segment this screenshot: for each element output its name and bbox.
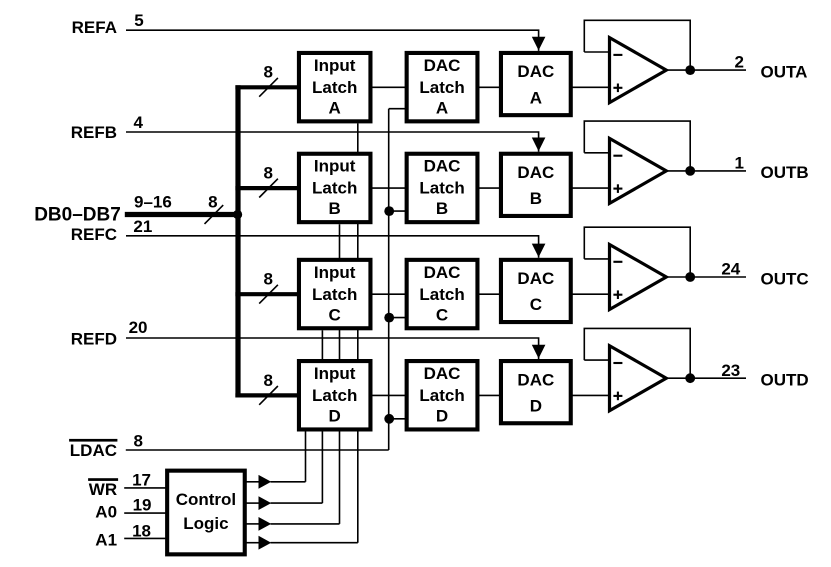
svg-text:20: 20 xyxy=(129,318,148,337)
block DAC B xyxy=(501,154,571,216)
bus stub 8-bit into Input Latch C xyxy=(235,292,298,296)
op-amp C xyxy=(610,245,667,310)
junction dot op-amp B output xyxy=(685,166,695,176)
junction dot LDAC tap B xyxy=(384,206,394,216)
wire op-amp A inverting input xyxy=(584,51,609,53)
junction dot LDAC tap C xyxy=(384,313,394,323)
svg-text:WR: WR xyxy=(89,480,117,499)
svg-text:Input: Input xyxy=(314,56,356,75)
svg-text:Control: Control xyxy=(176,490,236,509)
wire Control Logic output 1 stub xyxy=(246,481,259,483)
buffer arrowhead control output 3 xyxy=(259,517,272,531)
block DAC Latch C xyxy=(407,260,478,328)
arrowhead REFA into DAC A xyxy=(532,37,546,51)
svg-text:REFB: REFB xyxy=(71,123,117,142)
bus DB0-DB7 horizontal xyxy=(125,212,238,217)
buffer arrowhead control output 4 xyxy=(259,536,272,550)
op-amp A feedback wire xyxy=(584,20,690,70)
wire REFA from pin to DAC A xyxy=(126,30,539,51)
bus vertical distribution xyxy=(235,85,240,397)
wire Input Latch A to DAC Latch A xyxy=(372,86,406,88)
svg-text:DAC: DAC xyxy=(424,157,461,176)
bus width slash 8 on stub B xyxy=(259,179,278,198)
wire op-amp D inverting input xyxy=(584,359,609,361)
svg-text:Latch: Latch xyxy=(312,179,357,198)
svg-text:D: D xyxy=(530,396,542,415)
arrowhead REFB into DAC B xyxy=(532,138,546,152)
wire control output 4 horizontal run xyxy=(271,542,358,544)
svg-text:D: D xyxy=(329,407,341,426)
svg-text:8: 8 xyxy=(134,431,143,450)
svg-text:B: B xyxy=(436,199,448,218)
svg-text:Latch: Latch xyxy=(419,78,464,97)
svg-text:Latch: Latch xyxy=(419,386,464,405)
wire control line 1 vertical (to Input Latch D) xyxy=(305,432,307,482)
wire LDAC tap to DAC Latch D xyxy=(389,418,406,420)
bus width slash 8 on stub C xyxy=(259,285,278,304)
wire LDAC vertical riser xyxy=(388,109,390,450)
block Input Latch D xyxy=(299,361,371,429)
block DAC Latch B xyxy=(407,154,478,222)
wire op-amp D output xyxy=(666,377,746,379)
op-amp C feedback wire xyxy=(584,227,690,277)
op-amp D feedback wire xyxy=(584,328,690,378)
block DAC Latch D xyxy=(407,361,478,429)
wire LDAC tap to DAC Latch A xyxy=(389,108,406,110)
wire DAC C output to op-amp C + input xyxy=(572,293,610,295)
svg-text:Latch: Latch xyxy=(419,285,464,304)
svg-text:23: 23 xyxy=(721,361,740,380)
svg-text:21: 21 xyxy=(133,217,152,236)
wire REFC from pin to DAC C xyxy=(126,236,539,258)
junction dot LDAC tap D xyxy=(384,414,394,424)
svg-text:DAC: DAC xyxy=(517,163,554,182)
svg-text:19: 19 xyxy=(133,496,152,515)
svg-text:Input: Input xyxy=(314,364,356,383)
wire LDAC horizontal xyxy=(126,449,389,451)
op-amp B feedback wire xyxy=(584,121,690,171)
svg-text:4: 4 xyxy=(134,113,144,132)
block Input Latch B xyxy=(299,154,371,222)
op-amp B xyxy=(610,138,667,203)
wire op-amp B output xyxy=(666,170,746,172)
svg-text:A: A xyxy=(530,88,542,107)
junction dot op-amp A output xyxy=(685,65,695,75)
wire DAC B output to op-amp B + input xyxy=(572,187,610,189)
svg-text:DAC: DAC xyxy=(424,364,461,383)
svg-text:8: 8 xyxy=(208,193,217,212)
svg-text:Logic: Logic xyxy=(183,514,228,533)
svg-text:Input: Input xyxy=(314,157,356,176)
svg-text:Latch: Latch xyxy=(312,386,357,405)
svg-text:DAC: DAC xyxy=(517,62,554,81)
bus width slash 8 on stub A xyxy=(259,78,278,97)
svg-text:A1: A1 xyxy=(95,530,117,549)
wire control output 3 horizontal run xyxy=(271,523,340,525)
svg-text:OUTA: OUTA xyxy=(761,62,808,81)
wire control line 2 vertical (to Input Latch C, through D) xyxy=(321,330,323,503)
junction dot op-amp C output xyxy=(685,272,695,282)
svg-text:A: A xyxy=(436,98,448,117)
wire REFD from pin to DAC D xyxy=(126,338,539,359)
svg-text:OUTD: OUTD xyxy=(761,371,809,390)
wire control line 3 vertical (to Input Latch B, through C and D) xyxy=(339,224,341,524)
svg-text:LDAC: LDAC xyxy=(70,441,117,460)
block DAC D xyxy=(501,361,571,423)
svg-text:D: D xyxy=(436,407,448,426)
svg-text:REFA: REFA xyxy=(72,18,117,37)
svg-text:2: 2 xyxy=(734,53,743,72)
wire WR to Control Logic xyxy=(124,487,166,489)
svg-text:8: 8 xyxy=(264,63,273,82)
block Control Logic xyxy=(167,471,245,555)
wire A0 to Control Logic xyxy=(124,512,166,514)
svg-text:DAC: DAC xyxy=(517,370,554,389)
wire LDAC tap to DAC Latch C xyxy=(389,317,406,319)
wire A1 to Control Logic xyxy=(124,537,166,539)
wire DAC Latch A to DAC A xyxy=(479,86,500,88)
svg-text:DAC: DAC xyxy=(424,56,461,75)
wire Control Logic output 4 stub xyxy=(246,542,259,544)
svg-text:1: 1 xyxy=(734,154,743,173)
junction dot op-amp D output xyxy=(685,373,695,383)
wire LDAC tap to DAC Latch B xyxy=(389,210,406,212)
svg-text:DAC: DAC xyxy=(424,263,461,282)
block DAC Latch A xyxy=(407,53,478,121)
svg-text:Input: Input xyxy=(314,263,356,282)
block Input Latch A xyxy=(299,53,371,121)
op-amp D xyxy=(610,346,667,411)
bus stub 8-bit into Input Latch A xyxy=(235,85,298,89)
svg-text:Latch: Latch xyxy=(419,179,464,198)
arrowhead REFD into DAC D xyxy=(532,345,546,359)
wire Input Latch D to DAC Latch D xyxy=(372,394,406,396)
buffer arrowhead control output 1 xyxy=(259,475,272,489)
wire op-amp A output xyxy=(666,69,746,71)
svg-text:OUTB: OUTB xyxy=(761,163,809,182)
wire Control Logic output 3 stub xyxy=(246,523,259,525)
wire DAC Latch B to DAC B xyxy=(479,187,500,189)
wire control line 4 vertical (to Input Latch A, through B, C and D) xyxy=(357,123,359,542)
svg-text:17: 17 xyxy=(132,470,151,489)
wire REFB from pin to DAC B xyxy=(126,132,539,152)
wire DAC A output to op-amp A + input xyxy=(572,86,610,88)
block DAC C xyxy=(501,260,571,322)
wire DAC Latch C to DAC C xyxy=(479,293,500,295)
svg-text:5: 5 xyxy=(134,11,143,30)
svg-text:24: 24 xyxy=(721,260,740,279)
junction dot data bus xyxy=(233,210,242,219)
svg-text:REFD: REFD xyxy=(71,329,117,348)
svg-text:OUTC: OUTC xyxy=(761,269,809,288)
svg-text:C: C xyxy=(530,295,542,314)
wire control output 1 horizontal run xyxy=(271,481,306,483)
wire DAC D output to op-amp D + input xyxy=(572,394,610,396)
svg-text:REFC: REFC xyxy=(71,225,117,244)
wire Input Latch C to DAC Latch C xyxy=(372,293,406,295)
bus width slash 8 on stub D xyxy=(259,386,278,405)
svg-text:Latch: Latch xyxy=(312,285,357,304)
svg-text:A0: A0 xyxy=(95,503,117,522)
svg-text:DAC: DAC xyxy=(517,269,554,288)
svg-text:8: 8 xyxy=(264,270,273,289)
bus width slash 8 on data bus xyxy=(205,205,224,224)
block DAC A xyxy=(501,53,571,115)
svg-text:8: 8 xyxy=(264,164,273,183)
wire op-amp B inverting input xyxy=(584,152,609,154)
svg-text:B: B xyxy=(530,189,542,208)
op-amp A xyxy=(610,38,667,103)
buffer arrowhead control output 2 xyxy=(259,496,272,510)
svg-text:A: A xyxy=(329,98,341,117)
svg-text:9–16: 9–16 xyxy=(134,193,172,212)
bus stub 8-bit into Input Latch D xyxy=(235,393,298,397)
block Input Latch C xyxy=(299,260,371,328)
wire op-amp C inverting input xyxy=(584,258,609,260)
svg-text:C: C xyxy=(436,305,448,324)
wire control output 2 horizontal run xyxy=(271,502,323,504)
svg-text:DB0–DB7: DB0–DB7 xyxy=(34,204,121,225)
wire Input Latch B to DAC Latch B xyxy=(372,187,406,189)
wire op-amp C output xyxy=(666,276,746,278)
svg-text:B: B xyxy=(329,199,341,218)
svg-text:8: 8 xyxy=(264,371,273,390)
svg-text:Latch: Latch xyxy=(312,78,357,97)
bus stub 8-bit into Input Latch B xyxy=(235,186,298,190)
wire Control Logic output 2 stub xyxy=(246,502,259,504)
svg-text:C: C xyxy=(329,305,341,324)
wire DAC Latch D to DAC D xyxy=(479,394,500,396)
arrowhead REFC into DAC C xyxy=(532,244,546,258)
